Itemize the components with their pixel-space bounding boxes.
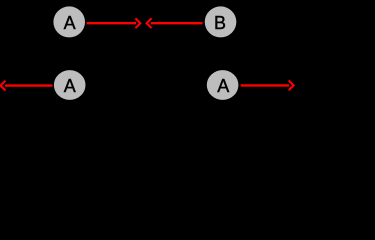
svg-text:A: A (64, 13, 76, 33)
arrow from B pointing left (147, 18, 203, 28)
node A (top left) (53, 6, 85, 37)
svg-text:A: A (217, 76, 229, 96)
arrowhead left-pointing (1, 81, 6, 91)
arrow from A pointing right (87, 18, 141, 28)
arrow from bottom-right A pointing right (241, 81, 294, 91)
arrow from bottom-left A pointing left (1, 81, 53, 91)
svg-text:A: A (64, 76, 76, 96)
arrowhead left-pointing (147, 18, 152, 28)
arrowhead right-pointing (289, 81, 294, 91)
wire: shaft A to midpoint (87, 22, 137, 24)
node A (bottom left) (54, 70, 86, 100)
wire: shaft from bottom-left A to left edge (5, 84, 53, 86)
wire: shaft from bottom-right A to the right (241, 84, 289, 86)
node A (bottom right) (207, 70, 239, 100)
wire: shaft B to midpoint (151, 22, 203, 24)
svg-text:B: B (214, 13, 226, 33)
arrowhead right-pointing (135, 18, 140, 28)
node B (top right) (205, 6, 237, 37)
